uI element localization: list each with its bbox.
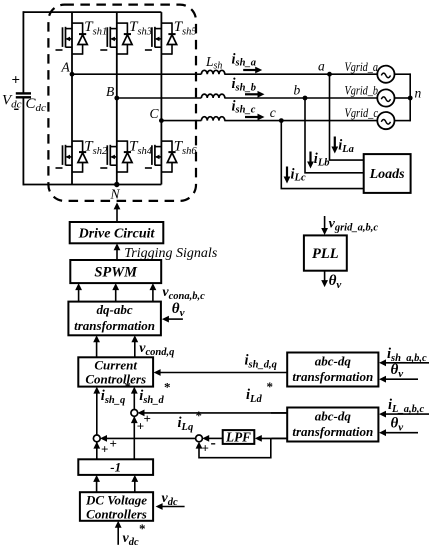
capacitor C_dc [16,93,31,97]
label Loads [369,167,406,182]
arrow from -1 into d junction [131,416,138,459]
arrow v_grid into PLL [321,216,328,235]
label transformation 2 [292,424,373,439]
label i_sh_d,q [245,353,277,371]
label i_sh_d* [139,380,170,407]
inductor L_sh phase b [201,94,224,98]
label v_dc [162,491,178,508]
node b [294,83,308,101]
block -1 [78,459,153,475]
svg-text:-1: -1 [110,460,121,475]
label C_dc [26,96,47,114]
label T_sh2 [84,139,108,158]
label SPWM [94,265,138,281]
arrow v_cond to dq-abc [93,335,100,357]
label Trigging Signals [124,246,218,261]
wire left rail upper segment [22,11,24,93]
node a [318,59,332,77]
svg-text:B: B [106,84,114,99]
svg-text:-: - [211,435,216,452]
arrow LPF to i_Lq junction [202,435,223,442]
label abc-dq 1 [315,354,352,369]
label Drive Circuit [78,227,156,242]
svg-text:-: - [14,99,20,118]
label -1 [110,460,121,475]
arrow DC controller to -1 (right) [131,475,138,493]
plus sign at i_Ld input [144,411,151,426]
wire phase c to grid [161,120,377,122]
diode antiparallel with T_sh3 [117,22,132,54]
svg-text:abc-dq: abc-dq [315,409,352,424]
current arrow i_sh_c [245,114,265,121]
plus sign below i_Lq junction [202,441,209,456]
svg-text:*: * [139,521,146,536]
wire phase a to grid [72,73,377,75]
svg-text:Loads: Loads [369,167,406,182]
node C [150,106,164,123]
wire i_sh_d,q [154,369,288,376]
svg-text:DC Voltage: DC Voltage [85,493,147,508]
block abc-dq transformation 1 [287,353,378,387]
current arrow i_Lb [307,152,314,169]
arrow feedback into i_Lq junction [196,442,203,449]
label i_Lb [314,151,330,168]
diode antiparallel with T_sh4 [117,140,132,172]
diode antiparallel with T_sh6 [161,140,176,172]
arrow Drive Circuit to node N [114,202,121,222]
dashed inverter enclosure [48,5,196,201]
arrow dq-abc to SPWM 2 [112,283,119,302]
node c [270,105,284,123]
label theta_v below PLL [329,273,342,291]
ac source Vgrid_a [377,66,394,83]
inductor L_sh phase c [201,117,224,121]
node A [61,60,75,77]
svg-text:Vgrid_b: Vgrid_b [345,84,379,98]
label T_sh1 [84,19,107,38]
arrow from -1 into q junction [93,442,100,460]
minus sign at LPF output [211,435,216,452]
wire DC negative rail (bottom) [23,184,161,186]
block Current Controllers [78,357,153,386]
label LPF [225,430,251,445]
wire DC positive rail (top) [23,11,161,13]
svg-text:SPWM: SPWM [94,265,138,281]
label v_dc* [123,521,146,548]
label Current [94,358,137,373]
wire phase leg A column [71,12,73,184]
svg-text:Drive Circuit: Drive Circuit [78,227,156,242]
svg-text:dq-abc: dq-abc [97,302,133,317]
label i_sh_a,b,c [387,346,427,364]
plus sign below q junction [101,442,108,457]
inductor L_sh phase a [201,70,224,74]
wire i_Lq from abc-dq 2 [272,437,288,439]
arrow v_conq to dq-abc [131,335,138,357]
label i_L_a,b,c [388,397,424,415]
transistor T_sh4 [100,145,117,168]
wire load feeder a [330,74,364,160]
svg-text:Vgrid_a: Vgrid_a [345,60,379,74]
svg-text:*: * [196,408,203,423]
arrow v_dc into DC controller [156,503,185,510]
label i_Lq* [178,408,203,433]
label T_sh3 [129,19,152,38]
wire left rail lower segment [22,97,24,185]
svg-text:Controllers: Controllers [86,507,147,522]
label v_cond,q [139,341,174,358]
svg-text:+: + [101,442,108,457]
current arrow i_Lc [284,167,291,184]
arrow theta_v into abc-dq 1 [379,376,418,383]
label T_sh4 [129,139,153,158]
current arrow i_La [331,137,338,154]
label DC Voltage [85,493,147,508]
label transformation (dq-abc) [74,318,155,333]
label Vgrid_c [345,106,379,120]
wire i_Ld from abc-dq 2 [271,412,287,414]
diode antiparallel with T_sh5 [161,22,176,54]
label L_sh [205,54,222,72]
label V_dc [2,93,22,111]
transistor T_sh6 [145,145,162,168]
svg-text:abc-dq: abc-dq [315,354,352,369]
svg-text:transformation: transformation [292,424,373,439]
arrow i_L_abc into abc-dq 2 [379,411,429,418]
ac source Vgrid_c [377,112,394,129]
svg-text:a: a [318,59,325,74]
transistor T_sh5 [145,27,162,50]
arrow theta_v into abc-dq 2 [379,429,418,436]
block abc-dq transformation 2 [287,408,378,442]
plus sign below d junction [137,419,144,434]
label i_sh_b [232,76,256,93]
arrow i_sh_q* into Current Controllers [93,387,100,436]
block PLL [304,235,347,270]
label T_sh5 [174,19,197,38]
block SPWM [70,260,161,283]
label i_sh_q* [101,379,131,406]
diode antiparallel with T_sh1 [72,22,87,54]
wire neutral rail [395,73,411,121]
svg-text:A: A [61,60,71,75]
node N [110,182,121,202]
svg-text:Vgrid_c: Vgrid_c [345,106,379,120]
block Loads [364,154,411,193]
transistor T_sh1 [56,27,73,50]
wire phase b to grid [117,97,378,99]
svg-text:*: * [164,380,171,395]
label i_La [338,138,354,155]
label minus polarity [14,99,20,118]
svg-text:*: * [125,379,132,394]
wire phase leg B column [116,12,118,184]
svg-text:+: + [144,411,151,426]
label Controllers [85,372,146,387]
svg-text:b: b [294,83,301,98]
svg-text:N: N [110,187,121,202]
diode antiparallel with T_sh2 [72,140,87,172]
block LPF [223,430,255,444]
current arrow i_sh_a [243,67,262,74]
label transformation 1 [292,369,373,384]
arrow DC controller to -1 (left) [93,475,100,493]
arrow i_sh_d* into Current Controllers [131,387,138,411]
arrow v_dc* into DC controller [115,521,122,545]
block Drive Circuit [70,222,164,243]
wire phase leg C column [160,12,162,184]
label theta_v at abc-dq 2 [391,416,404,434]
svg-text:Current: Current [94,358,137,373]
wire load feeder c [281,121,363,189]
svg-text:PLL: PLL [312,246,339,262]
arrow i_Lq into LPF [255,435,288,442]
label i_Ld* [246,379,273,405]
svg-text:LPF: LPF [225,430,251,445]
label Controllers (DC) [86,507,147,522]
label Vgrid_a [345,60,379,74]
summing junction i_Lq* [196,435,203,442]
svg-text:n: n [415,86,422,101]
label PLL [312,246,339,262]
svg-text:+: + [202,441,209,456]
arrow SPWM to Drive Circuit [114,243,121,260]
transistor T_sh2 [56,145,73,168]
svg-text:+: + [110,436,117,451]
node B [106,84,119,100]
label i_sh_a [232,51,256,68]
block DC Voltage Controllers [80,492,153,521]
transistor T_sh3 [100,27,117,50]
wire i_Lq feedback loop [199,438,271,457]
label theta_v at abc-dq 1 [391,362,404,380]
label i_sh_c [232,98,256,115]
label T_sh6 [174,139,198,158]
svg-text:c: c [270,105,276,120]
arrow i_Lq* into q junction [100,435,196,442]
svg-text:Controllers: Controllers [85,372,146,387]
ac source Vgrid_b [377,89,394,106]
svg-text:Trigging Signals: Trigging Signals [124,246,218,261]
node n [408,86,422,101]
arrow i_sh_abc into abc-dq 1 [379,359,429,366]
svg-text:+: + [137,419,144,434]
svg-text:C: C [150,106,160,121]
label abc-dq 2 [315,409,352,424]
current arrow i_sh_b [245,91,265,98]
summing junction i_sh_q* [93,435,100,442]
arrow theta_v into dq-abc [162,316,183,323]
svg-text:*: * [267,379,274,394]
svg-text:transformation: transformation [74,318,155,333]
summing junction i_sh_d* [131,410,138,417]
arrow i_Ld* into junction [138,410,288,417]
label Vgrid_b [345,84,379,98]
arrow dq-abc to SPWM 1 [75,283,82,302]
svg-text:transformation: transformation [292,369,373,384]
arrow dq-abc to SPWM 3 [150,283,157,302]
label v_cona,b,c [162,285,205,302]
label dq-abc [97,302,133,317]
block dq-abc transformation [68,302,160,336]
label v_grid_a,b,c [329,217,379,234]
label theta_v at dq-abc [172,301,185,319]
svg-text:+: + [12,73,21,89]
label plus polarity [12,73,21,89]
wire load feeder b [305,98,364,173]
arrow theta_v out of PLL [321,270,328,287]
label i_Lc [291,166,306,183]
plus sign at q junction right [110,436,117,451]
